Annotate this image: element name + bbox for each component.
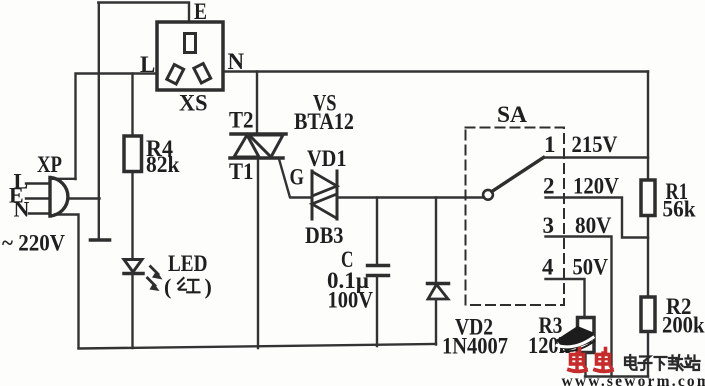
svg-text:LED: LED <box>168 251 208 276</box>
svg-text:3: 3 <box>543 213 555 238</box>
svg-text:): ) <box>205 274 212 299</box>
svg-text:BTA12: BTA12 <box>294 109 354 134</box>
wire E top link <box>98 3 189 240</box>
glyph zi <box>639 357 652 371</box>
svg-text:82k: 82k <box>146 152 180 177</box>
diode VD2 <box>428 198 449 345</box>
triac VS <box>230 72 286 349</box>
diac VD1 DB3 <box>312 171 337 219</box>
wire tap2 120V <box>546 198 649 238</box>
glyph zhan <box>685 356 700 371</box>
wire bottom bus <box>79 344 437 349</box>
svg-text:XP: XP <box>37 152 62 177</box>
svg-text:E: E <box>194 0 207 24</box>
watermark site name glyphs <box>625 355 700 370</box>
switch pole <box>483 158 543 200</box>
svg-text:120V: 120V <box>573 174 619 199</box>
svg-text:(: ( <box>164 274 171 299</box>
svg-text:T2: T2 <box>229 108 254 133</box>
svg-text:N: N <box>228 49 245 74</box>
LED <box>124 260 163 349</box>
svg-text:XS: XS <box>179 91 208 116</box>
watermark bug 1 <box>569 349 586 372</box>
svg-text:1: 1 <box>544 132 556 157</box>
svg-text:SA: SA <box>497 102 527 127</box>
svg-text:DB3: DB3 <box>305 223 344 248</box>
wire tap3 80V <box>546 237 612 377</box>
wire tap4 50V <box>546 279 585 318</box>
svg-text:50V: 50V <box>573 255 609 280</box>
resistor R1 <box>641 180 655 297</box>
svg-text:G: G <box>290 165 305 190</box>
watermark swoosh <box>556 326 595 352</box>
wire right bus <box>647 72 649 181</box>
svg-text:L: L <box>140 52 155 77</box>
svg-text:215V: 215V <box>572 132 618 157</box>
svg-text:~ 220V: ~ 220V <box>2 231 65 256</box>
svg-text:100V: 100V <box>328 288 374 313</box>
svg-text:56k: 56k <box>663 197 696 222</box>
wire gate <box>279 159 312 198</box>
glyph hong <box>178 278 200 292</box>
wire tap1 215V <box>544 156 649 158</box>
wire L top <box>76 74 158 180</box>
svg-text:N: N <box>14 197 30 222</box>
glyph zai <box>669 355 683 370</box>
resistor R3 <box>578 318 595 377</box>
svg-text:VD1: VD1 <box>307 146 347 171</box>
resistor R2 <box>641 297 655 377</box>
glyph dian <box>625 355 637 370</box>
svg-text:2: 2 <box>543 174 555 199</box>
capacitor C <box>368 198 389 347</box>
resistor R4 <box>124 74 142 260</box>
wire N top <box>223 70 648 72</box>
ground <box>91 238 110 242</box>
svg-text:4: 4 <box>542 255 554 280</box>
switch SA dashed box <box>466 128 565 306</box>
svg-text:www.seworm.com: www.seworm.com <box>562 373 705 386</box>
svg-text:200k: 200k <box>662 313 705 338</box>
svg-text:T1: T1 <box>229 159 254 184</box>
glyph xia <box>655 357 667 370</box>
socket XS <box>157 22 223 90</box>
svg-text:1N4007: 1N4007 <box>442 334 508 359</box>
wire plug leads <box>52 179 100 348</box>
plug XP <box>26 178 68 217</box>
wire lower bus <box>585 375 648 377</box>
wire diac to switch <box>337 196 484 198</box>
watermark bug 2 <box>595 349 612 372</box>
svg-text:80V: 80V <box>575 213 612 238</box>
